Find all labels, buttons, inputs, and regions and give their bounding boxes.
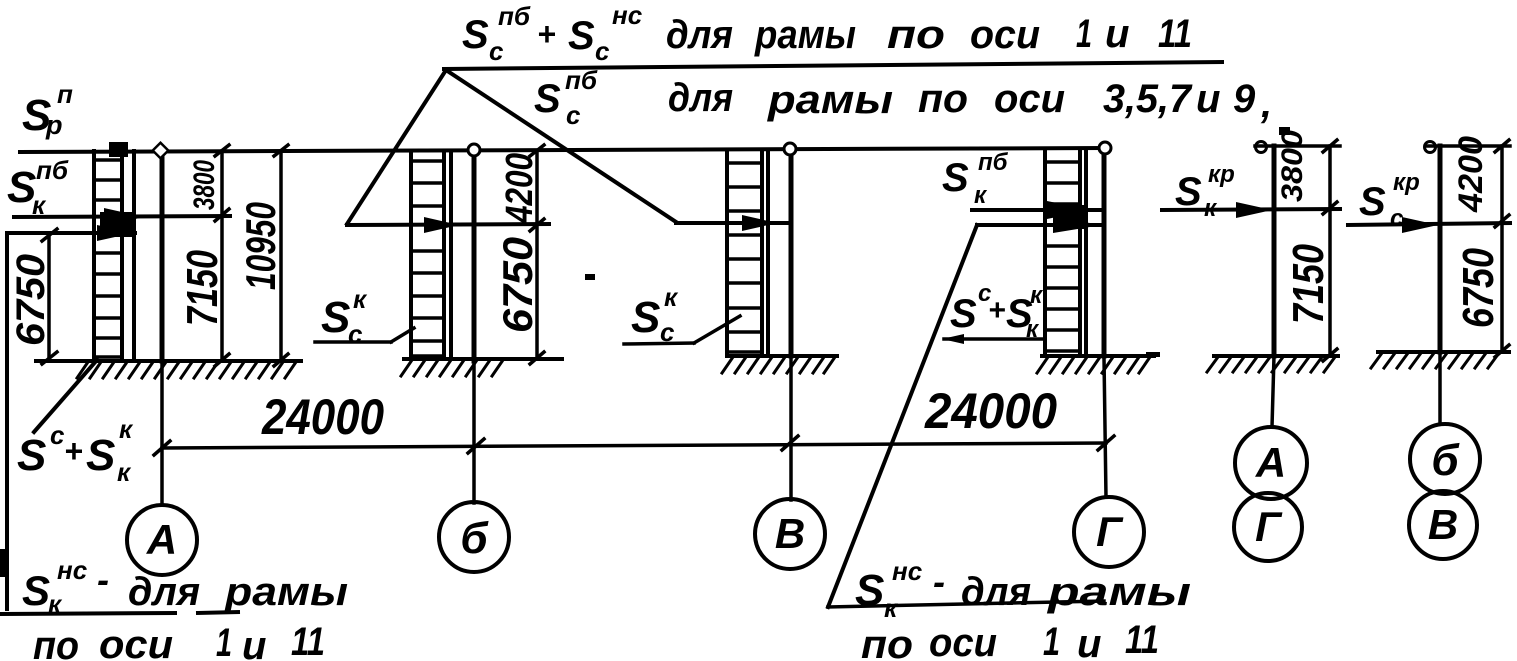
svg-text:1: 1 <box>216 621 232 661</box>
svg-text:11: 11 <box>1125 618 1159 661</box>
svg-text:и: и <box>1077 622 1101 661</box>
axis circle В (right) <box>1409 491 1477 559</box>
svg-text:по: по <box>861 623 913 661</box>
top label row 1: Sс^пб + Sс^нс для рамы по оси 1 и 11 <box>462 0 1192 66</box>
svg-text:с: с <box>566 100 581 130</box>
svg-text:и: и <box>1196 77 1220 121</box>
hinge circle at column Г top <box>1099 142 1111 154</box>
svg-text:9: 9 <box>1233 77 1256 121</box>
label Sс^к (near Б) <box>321 284 368 349</box>
label Sк^пб <box>7 155 69 220</box>
svg-text:7150: 7150 <box>1284 244 1333 324</box>
dimension line 3800/7150 (frame A) <box>220 151 224 360</box>
svg-text:S: S <box>321 293 350 342</box>
svg-text:S: S <box>86 431 115 480</box>
frame Б load strip <box>411 151 444 358</box>
dark overlap of arrows on strip (frame A) <box>100 212 133 237</box>
svg-text:п: п <box>57 79 73 109</box>
svg-text:А: А <box>1255 439 1286 486</box>
svg-text:S: S <box>942 156 969 200</box>
7150 text <box>178 250 227 326</box>
svg-text:+: + <box>988 294 1006 327</box>
leader from arrow 2 down left edge to bottom label <box>5 233 9 609</box>
axis circle В <box>755 499 825 569</box>
svg-text:3800: 3800 <box>188 160 221 210</box>
svg-text:пб: пб <box>498 1 531 31</box>
axis line Г <box>1104 358 1106 497</box>
axis line В <box>789 358 793 500</box>
svg-text:по: по <box>33 624 79 661</box>
axis circle Б (right) <box>1410 424 1480 494</box>
svg-text:с: с <box>489 36 504 66</box>
dimension 6750 (frame A) <box>47 235 51 358</box>
frame A ground line <box>36 359 301 363</box>
svg-text:к: к <box>884 593 899 623</box>
6750 text (frame Б) <box>494 237 541 333</box>
svg-text:к: к <box>1030 282 1044 309</box>
svg-text:с: с <box>595 36 610 66</box>
bottom-right label line 2: по оси 1 и 11 <box>861 618 1159 661</box>
frame Б load arrow <box>347 224 549 225</box>
svg-text:к: к <box>353 284 368 314</box>
hinge circle right column 2 <box>1425 142 1436 153</box>
right column 1 <box>1272 146 1277 356</box>
24000 text (right span) <box>924 383 1057 439</box>
svg-text:S: S <box>1175 170 1202 214</box>
label Sс^к (near В) <box>631 282 679 347</box>
underline of Sс^к <box>315 340 391 344</box>
leader V right branch <box>446 70 676 222</box>
24000 text (left span) <box>261 389 384 445</box>
svg-text:Г: Г <box>1096 508 1124 555</box>
leader Sс^к to strip <box>391 328 414 342</box>
right column 1 ground line <box>1214 354 1338 358</box>
svg-text:S: S <box>462 13 489 57</box>
frame В load strip <box>727 151 762 355</box>
svg-text:пб: пб <box>565 65 598 95</box>
10950 text <box>237 202 284 290</box>
dimension line 10950 (frame A) <box>279 151 283 360</box>
hinge circle at column Б top <box>468 144 480 156</box>
svg-text:S: S <box>17 431 46 480</box>
svg-text:оси: оси <box>970 13 1040 57</box>
axis line A <box>160 361 164 505</box>
axis circle Г (right) <box>1234 493 1302 561</box>
7150 text (right column 1) <box>1284 244 1333 324</box>
svg-text:к: к <box>119 414 134 444</box>
frame A load arrow 1 <box>14 216 230 217</box>
frame Г ground line <box>1042 354 1154 358</box>
frame Г load arrow 2 <box>977 223 1104 227</box>
svg-text:для: для <box>961 570 1031 614</box>
long leader to bottom Sк^нс label <box>828 225 977 607</box>
frame Б inner rail <box>449 151 453 358</box>
svg-text:S: S <box>22 567 50 614</box>
top extension line right column 2 <box>1427 144 1510 148</box>
dark overlap of arrows on strip (frame Г) <box>1053 205 1087 229</box>
svg-text:рамы: рамы <box>754 13 856 57</box>
svg-text:6750: 6750 <box>1454 248 1503 328</box>
svg-text:б: б <box>1431 436 1460 485</box>
svg-text:и: и <box>242 624 266 661</box>
svg-text:11: 11 <box>291 620 325 661</box>
frame A column <box>160 151 165 361</box>
svg-text:пб: пб <box>978 149 1009 176</box>
svg-text:6750: 6750 <box>9 254 53 346</box>
dimension line right column 2 <box>1500 146 1504 351</box>
right column 2 load arrow <box>1348 223 1510 225</box>
svg-text:нс: нс <box>892 556 923 586</box>
axis line Б <box>472 361 476 503</box>
svg-text:кр: кр <box>1208 161 1235 188</box>
frame В inner rail <box>766 151 770 355</box>
right column 1 axis line <box>1272 356 1274 427</box>
hinge circle right column 1 <box>1256 142 1267 153</box>
frame В load arrow <box>676 221 791 225</box>
svg-text:для: для <box>668 76 733 120</box>
speck dash left of right ground <box>1146 352 1160 357</box>
frame Г ground hatch <box>1037 357 1150 373</box>
right column 1: label Sк^кр <box>1175 161 1235 222</box>
svg-text:с: с <box>1390 205 1403 232</box>
svg-text:А: А <box>146 516 177 563</box>
svg-text:1: 1 <box>1043 620 1060 661</box>
svg-text:рамы: рамы <box>1047 570 1191 614</box>
roof line <box>20 148 1105 152</box>
label Sр^п <box>22 79 73 140</box>
svg-text:к: к <box>117 457 132 487</box>
bottom-left label underline <box>0 613 175 614</box>
svg-text:6750: 6750 <box>494 237 541 333</box>
bottom-right label underline <box>828 601 1104 607</box>
frame В column <box>789 150 794 356</box>
frame A load arrow 2 (Sк.нс) <box>7 231 135 235</box>
svg-text:24000: 24000 <box>261 389 384 445</box>
top label row 2: Sс^пб для рамы по оси 3,5,7 и 9 <box>534 65 1272 130</box>
frame В ground line <box>727 354 837 358</box>
svg-text:11: 11 <box>1158 12 1192 56</box>
svg-text:S: S <box>950 292 977 336</box>
svg-text:по: по <box>887 13 945 57</box>
svg-text:,: , <box>1260 82 1272 126</box>
3800 text <box>188 160 221 210</box>
svg-text:1: 1 <box>1076 12 1092 56</box>
frame A load strip <box>94 151 122 360</box>
bottom-right label Sк^нс - для рамы <box>855 556 1191 623</box>
label Sс+Sк^к (frame Г) <box>950 280 1044 343</box>
svg-text:к: к <box>664 282 679 312</box>
svg-text:S: S <box>568 14 595 58</box>
svg-text:S: S <box>534 77 561 121</box>
svg-text:с: с <box>348 319 363 349</box>
svg-text:S: S <box>631 293 660 342</box>
span dimension line 24000 <box>162 443 1106 448</box>
svg-text:S: S <box>1359 180 1386 224</box>
frame Г load arrow 1 <box>972 208 1104 212</box>
top extension line right column 1 <box>1255 144 1340 148</box>
svg-text:к: к <box>974 182 988 209</box>
4200 text (right column 2) <box>1452 136 1490 213</box>
svg-text:пб: пб <box>36 155 69 185</box>
svg-text:кр: кр <box>1393 169 1420 196</box>
axis circle Б <box>439 502 509 572</box>
hinge diamond at column A top <box>153 143 169 159</box>
svg-text:оси: оси <box>99 623 173 661</box>
svg-text:нс: нс <box>612 0 643 30</box>
leader from Sс+Sк to strip bottom <box>34 360 97 432</box>
right column 2 <box>1438 146 1443 352</box>
svg-text:24000: 24000 <box>924 383 1057 439</box>
right column 2 ground hatch <box>1371 353 1499 368</box>
svg-text:4200: 4200 <box>499 153 541 224</box>
speck top right <box>1279 127 1290 135</box>
dimension line 4200/6750 (frame Б) <box>535 151 539 358</box>
svg-text:4200: 4200 <box>1452 136 1490 213</box>
axis circle A <box>127 505 197 575</box>
svg-text:-: - <box>933 561 945 602</box>
svg-text:+: + <box>537 16 556 52</box>
left edge scan smudge <box>0 549 6 577</box>
bottom-left label Sк^нс - для рамы <box>22 555 348 619</box>
right column 2: label Sс^кр <box>1359 169 1420 232</box>
svg-text:7150: 7150 <box>178 250 227 326</box>
4200 text <box>499 153 541 224</box>
6750 text (right column 2) <box>1454 248 1503 328</box>
svg-text:3,5,7: 3,5,7 <box>1103 77 1193 121</box>
right column 1 ground hatch <box>1207 357 1335 372</box>
right column 1 load arrow <box>1162 209 1340 210</box>
right column 2 axis line <box>1438 352 1442 424</box>
fraction bar under top row <box>444 62 1222 69</box>
right column 2 ground line <box>1378 350 1509 354</box>
label Sк^пб (frame Г) <box>942 149 1009 209</box>
svg-text:3800: 3800 <box>1276 130 1309 202</box>
svg-text:В: В <box>1428 501 1458 548</box>
bottom-left label line 2: по оси 1 и 11 <box>33 620 325 661</box>
svg-text:рамы: рамы <box>767 78 893 122</box>
svg-text:и: и <box>1105 12 1129 56</box>
svg-text:с: с <box>50 420 65 450</box>
frame В ground hatch <box>722 357 835 373</box>
svg-text:рамы: рамы <box>224 570 348 614</box>
frame Г load strip <box>1045 151 1080 355</box>
svg-text:б: б <box>460 514 489 563</box>
frame Б ground hatch <box>401 360 503 376</box>
svg-text:+: + <box>64 433 83 469</box>
anchor square at strip top <box>109 142 128 157</box>
svg-text:для: для <box>128 570 200 614</box>
svg-text:10950: 10950 <box>237 202 284 290</box>
frame Б ground line <box>404 357 562 361</box>
arrowed underline of Sс+Sк (Г) <box>944 337 1045 341</box>
axis circle А (right) <box>1235 427 1307 499</box>
svg-text:по: по <box>918 77 968 121</box>
frame A inner rail <box>132 151 136 360</box>
leader V left branch <box>347 70 446 224</box>
dimension line right column 1 <box>1328 146 1332 355</box>
svg-text:р: р <box>45 110 63 140</box>
speck dash near B strip <box>585 274 595 280</box>
frame A ground hatch <box>77 362 296 378</box>
svg-text:оси: оси <box>929 621 997 661</box>
svg-text:Г: Г <box>1255 503 1283 550</box>
3800 text (right column 1) <box>1276 130 1309 202</box>
frame Г inner rail <box>1084 151 1088 355</box>
frame Б column <box>472 150 477 361</box>
svg-text:-: - <box>97 559 109 600</box>
svg-text:нс: нс <box>57 555 88 585</box>
svg-text:оси: оси <box>994 77 1065 121</box>
hinge circle at column В top <box>784 143 796 155</box>
svg-text:для: для <box>666 13 733 57</box>
axis circle Г <box>1074 497 1144 567</box>
frame Г column <box>1102 150 1107 356</box>
underline of Sс^к (В) <box>624 343 694 344</box>
label Sс+Sк^к (frame A bottom left) <box>17 414 134 487</box>
svg-text:В: В <box>775 510 805 557</box>
leader Sс^к to strip (В) <box>694 316 740 343</box>
